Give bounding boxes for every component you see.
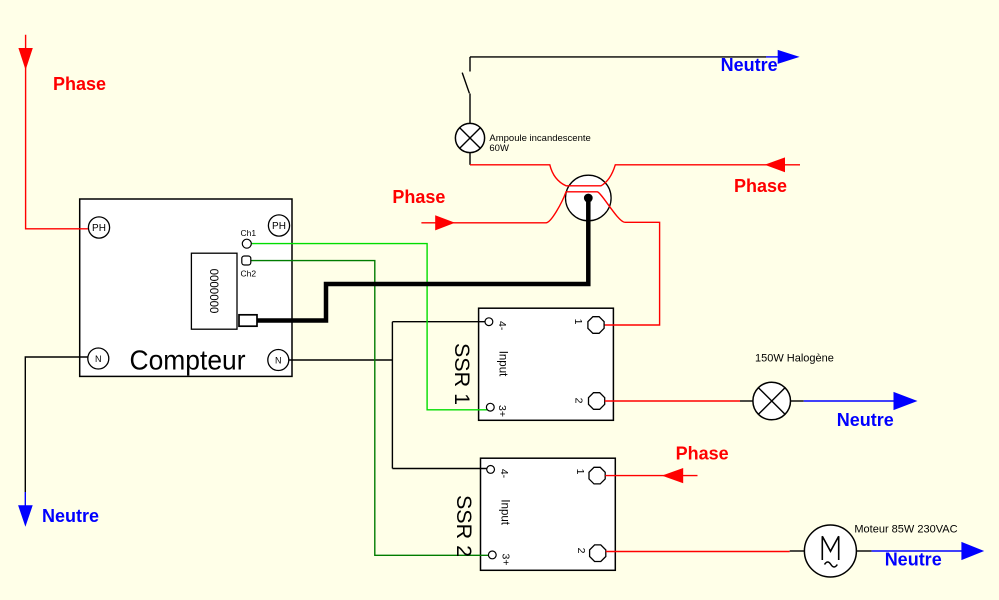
svg-text:Neutre: Neutre (885, 550, 942, 570)
svg-text:2: 2 (573, 398, 585, 404)
wire neutre halogen (blue) (804, 400, 894, 402)
svg-text:150W Halogène: 150W Halogène (755, 353, 834, 365)
wire neutral end segment (blue) (24, 492, 26, 506)
pin N bottom-left of meter (88, 348, 109, 369)
motor M1 (circle with M~) (790, 550, 805, 552)
svg-text:Compteur: Compteur (130, 345, 246, 376)
SSR2 pin 2 octagon (590, 545, 606, 562)
svg-text:4-: 4- (496, 321, 508, 331)
arrow phase left (red, pointing right) (435, 215, 455, 230)
current clamp CT body (circle) (566, 175, 612, 221)
arrow neutre top (blue, pointing right) (778, 50, 800, 64)
arrow phase feed (red, pointing down) (18, 48, 32, 70)
svg-text:Ch2: Ch2 (241, 269, 257, 279)
SSR 1 box (479, 308, 614, 420)
wire SSR2 output 2 to motor (red) (606, 551, 790, 553)
svg-text:60W: 60W (489, 143, 509, 154)
svg-text:Moteur 85W 230VAC: Moteur 85W 230VAC (854, 524, 957, 536)
wire phase feed (red, top-left vertical) (26, 35, 88, 229)
SSR1 pin 1 octagon (588, 317, 604, 334)
pin PH top-left of meter (88, 217, 109, 238)
svg-text:3+: 3+ (496, 405, 508, 417)
switch S1 (open blade, top) (469, 57, 471, 72)
lamp L1 incandescent 60W (circle with X) (455, 123, 484, 152)
svg-text:N: N (275, 356, 282, 366)
arrow phase right (red, pointing left) (765, 157, 785, 172)
SSR2 pin 1 octagon (589, 467, 605, 484)
meter display window (191, 253, 237, 329)
wire neutral bus from N right (black) to SSR inputs (289, 359, 392, 361)
svg-text:Phase: Phase (734, 176, 787, 196)
wire neutre top end segment (blue) (766, 56, 779, 58)
wire Ch2 control (dark green) to SSR2 input 3+ (251, 261, 489, 556)
svg-text:2: 2 (575, 548, 587, 554)
SSR1 pin 2 octagon (589, 393, 605, 410)
pin PH top-right of meter (268, 215, 289, 236)
SSR 2 box (481, 458, 616, 570)
svg-text:Phase: Phase (676, 444, 729, 464)
svg-text:Input: Input (498, 499, 510, 525)
svg-text:0000000: 0000000 (207, 269, 219, 314)
wire phase SSR1 circuit through clamp (red) (421, 192, 659, 325)
wire neutral from N to bottom-left (black) (25, 357, 88, 492)
svg-text:3+: 3+ (500, 554, 512, 566)
wire SSR1 output 2 to halogen (red) (605, 400, 740, 402)
svg-text:Ch1: Ch1 (241, 228, 257, 238)
arrow phase SSR2 (red, pointing left) (662, 468, 683, 483)
SSR1 pin 3+ circle (486, 403, 494, 411)
wire Ch1 control (bright green) to SSR1 input 3+ (251, 244, 487, 410)
svg-text:PH: PH (92, 223, 106, 234)
SSR2 pin 3+ circle (488, 551, 496, 559)
arrow neutre halogen (blue, pointing right) (894, 392, 918, 410)
SSR1 pin 4- circle (485, 318, 493, 326)
svg-text:4-: 4- (498, 469, 510, 479)
wire neutre top (black horizontal) (470, 56, 766, 58)
clamp sensing dot and stem (584, 194, 593, 203)
svg-text:Neutre: Neutre (42, 506, 99, 526)
wire phase SSR2 input 1 (red) (605, 475, 697, 477)
wire phase lamp circuit through clamp (red) (470, 165, 800, 186)
pin N bottom-right of meter (268, 350, 289, 371)
svg-text:1: 1 (574, 469, 586, 475)
wire telemetry thick black from meter connector to clamp (257, 198, 588, 321)
lamp L2 halogen (circle with X) (740, 400, 753, 402)
compteur box (meter) (80, 199, 292, 376)
svg-text:Phase: Phase (392, 187, 445, 207)
svg-text:Phase: Phase (53, 74, 106, 94)
svg-text:PH: PH (272, 221, 286, 232)
meter telemetry connector (239, 315, 257, 326)
svg-text:SSR 2: SSR 2 (452, 495, 476, 557)
SSR2 pin 4- circle (487, 466, 495, 474)
wire neutre motor (blue) (872, 550, 962, 552)
svg-text:Neutre: Neutre (837, 410, 894, 430)
svg-text:SSR 1: SSR 1 (450, 343, 474, 405)
arrow neutre motor (blue, pointing right) (961, 542, 984, 560)
arrow neutre bottom-left (blue, pointing down) (18, 505, 33, 526)
svg-text:Input: Input (496, 351, 508, 377)
svg-text:Neutre: Neutre (721, 55, 778, 75)
pin Ch2 (242, 256, 251, 265)
pin Ch1 (242, 239, 251, 248)
svg-text:1: 1 (572, 319, 584, 325)
svg-text:N: N (95, 354, 102, 364)
